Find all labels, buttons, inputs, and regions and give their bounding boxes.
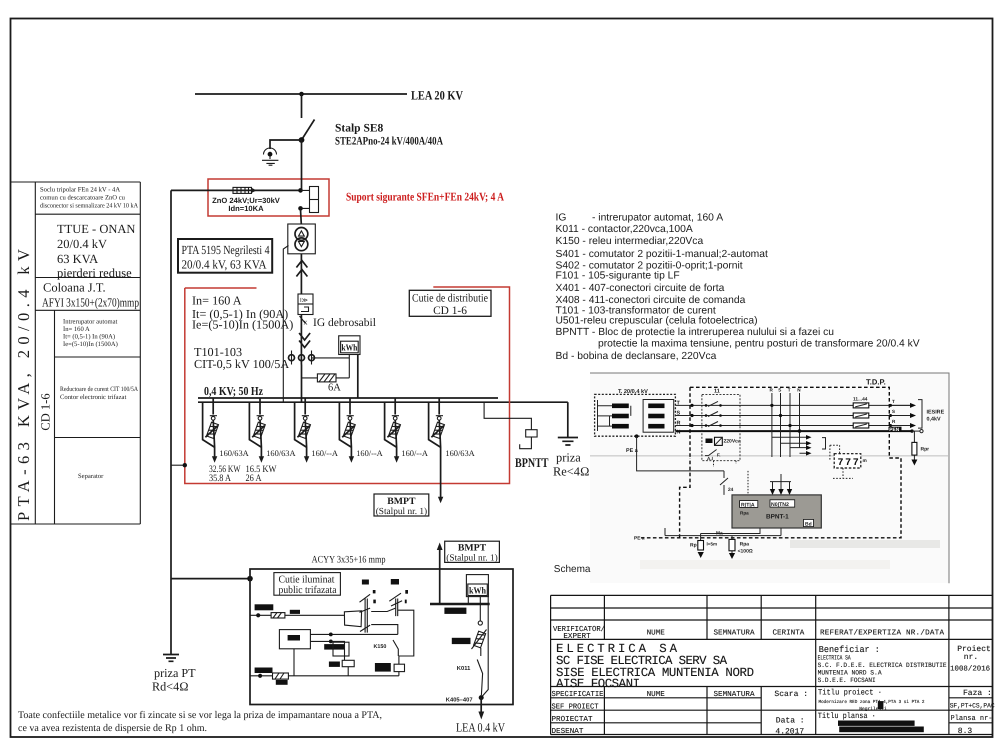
svg-text:1008/2016: 1008/2016 (950, 665, 990, 674)
svg-text:Ie=(5-10)In (1500A): Ie=(5-10)In (1500A) (63, 341, 118, 348)
voltmeter dotted link (830, 445, 853, 478)
svg-text:S401 - comutator 2 pozitii-1-m: S401 - comutator 2 pozitii-1-manual;2-au… (556, 249, 768, 260)
svg-text:Ma: Ma (716, 531, 723, 537)
redaction marks titlu (878, 701, 884, 709)
svg-text:4.2017: 4.2017 (775, 728, 804, 737)
table row: reductoare de curent (60, 386, 138, 401)
svg-text:NUME: NUME (647, 630, 666, 638)
coil 2 (342, 660, 354, 666)
legend component list (556, 213, 920, 363)
svg-text:In= 160 A: In= 160 A (192, 294, 242, 308)
svg-text:8.3: 8.3 (958, 727, 973, 736)
svg-text:BMPT: BMPT (458, 543, 487, 554)
svg-text:NUME: NUME (647, 691, 666, 699)
svg-text:Coloana J.T.: Coloana J.T. (43, 281, 106, 295)
fuse interior 2 (273, 673, 289, 679)
contact pair 2 (396, 599, 398, 617)
svg-text:comun cu descarcatoare ZnO cu: comun cu descarcatoare ZnO cu (40, 195, 126, 202)
phase lines (675, 405, 911, 425)
title block grid (551, 595, 993, 734)
svg-text:Stalp SE8: Stalp SE8 (335, 123, 384, 135)
wire earthing conductor left (170, 190, 172, 654)
svg-text:777: 777 (838, 458, 861, 469)
winding secondary (643, 400, 674, 433)
svg-text:Rd<4Ω: Rd<4Ω (152, 680, 189, 694)
svg-text:Rpa: Rpa (740, 542, 750, 548)
coil K150 (394, 664, 404, 671)
control taps verticals (772, 393, 800, 457)
svg-text:A.I: A.I (707, 456, 713, 461)
feeder 3 switch-fuse (295, 398, 338, 463)
svg-text:priza: priza (556, 451, 581, 465)
enclosure cutie iluminat public (250, 569, 513, 705)
svg-text:SEF PROIECT: SEF PROIECT (552, 702, 599, 711)
svg-text:11: 11 (714, 389, 720, 395)
svg-text:160/--A: 160/--A (356, 449, 383, 458)
svg-text:K150 - releu intermediar,220Vc: K150 - releu intermediar,220Vca (556, 236, 704, 247)
svg-text:Faza :: Faza : (963, 689, 992, 698)
svg-text:CD 1-6: CD 1-6 (39, 393, 53, 430)
withdrawable chevrons up (296, 261, 307, 277)
node interior (256, 613, 260, 617)
svg-text:disconector si semnalizare 24: disconector si semnalizare 24 kV 10 kA (40, 203, 138, 210)
phase squares above (362, 580, 369, 585)
svg-text:220Vca: 220Vca (724, 439, 741, 445)
node LEA exit (479, 695, 484, 700)
wire ZnO arrester branch (171, 189, 301, 191)
svg-text:S: S (892, 409, 895, 414)
svg-text:AFYI 3x150+(2x70)mmp: AFYI 3x150+(2x70)mmp (42, 296, 139, 310)
svg-text:K011 - contactor,220vca,100A: K011 - contactor,220vca,100A (556, 224, 693, 235)
table row: intrerupator automat (63, 319, 118, 349)
TDP dashed outline (640, 387, 901, 538)
wire transformer neutral diagonal (283, 246, 288, 403)
feeder 5 switch-fuse (385, 398, 428, 463)
svg-text:CERINTA: CERINTA (772, 629, 804, 638)
svg-text:LEA 0.4 kV: LEA 0.4 kV (456, 721, 505, 735)
wire mid branch (371, 625, 398, 635)
svg-text:20/0.4 kV, 63 KVA: 20/0.4 kV, 63 KVA (182, 257, 267, 271)
svg-text:20/0.4 kV: 20/0.4 kV (57, 237, 107, 251)
svg-text:Contor electronic trifazat: Contor electronic trifazat (60, 394, 126, 401)
redaction bars interior bottom (255, 668, 273, 674)
svg-text:ce va avea rezistenta de dispe: ce va avea rezistenta de dispersie de Rp… (18, 723, 207, 734)
svg-text:PE a: PE a (634, 536, 645, 542)
svg-text:I≫: I≫ (300, 297, 308, 304)
contactor blades (708, 401, 718, 426)
svg-text:Rpr: Rpr (921, 447, 930, 453)
wire interior bottom (250, 675, 399, 677)
svg-text:Toate confectiile metalice vor: Toate confectiile metalice vor fi zincat… (18, 710, 382, 721)
meter kWh 2 (466, 575, 488, 597)
node fuse bottom (298, 206, 303, 211)
redaction bars interior top (255, 604, 274, 610)
wire riser to BMPT arrow up (439, 549, 441, 604)
svg-text:kWh: kWh (341, 343, 357, 353)
fuse-switch on LEA feeder (474, 631, 486, 648)
svg-text:LEA 20 KV: LEA 20 KV (411, 89, 464, 103)
winding primary (598, 400, 631, 431)
svg-text:0,4kV: 0,4kV (927, 417, 941, 423)
svg-text:Data :: Data : (776, 716, 805, 725)
svg-text:160/63A: 160/63A (219, 449, 248, 458)
label box BMPT 2 (445, 541, 500, 562)
label box Cutie de distributie (409, 290, 491, 316)
svg-text:ACYY 3x35+16 mmp: ACYY 3x35+16 mmp (312, 555, 386, 566)
svg-text:SF,PT+CS,PAC: SF,PT+CS,PAC (950, 702, 995, 710)
svg-text:It= (0,5-1) In (90A): It= (0,5-1) In (90A) (63, 334, 115, 341)
ground at pole arrester (262, 160, 278, 165)
svg-text:PTA 5195 Negrilesti 4: PTA 5195 Negrilesti 4 (182, 243, 270, 257)
contactor drive box (344, 611, 361, 627)
wire pair2 to right riser (398, 610, 414, 664)
svg-text:SEMNATURA: SEMNATURA (713, 629, 754, 638)
wire to surge arrester (270, 140, 302, 149)
sense arrows into block (770, 474, 791, 490)
svg-text:BPNTT: BPNTT (515, 455, 549, 470)
contact pair 1 (365, 599, 367, 633)
svg-text:Intrerupator automat: Intrerupator automat (63, 319, 118, 326)
contactor dashed box (702, 394, 740, 460)
svg-text:kWh: kWh (469, 587, 487, 597)
svg-text:EXPERT: EXPERT (563, 633, 591, 641)
bracket iesire (918, 400, 922, 429)
svg-text:SEMNATURA: SEMNATURA (713, 690, 754, 699)
feeder 1 switch-fuse (203, 398, 249, 463)
svg-text:11...44: 11...44 (853, 397, 868, 403)
scan smudges (790, 540, 940, 548)
wire exit arrow LEA 0.4 (480, 698, 482, 713)
svg-text:T: T (788, 388, 791, 393)
svg-text:x: x (304, 318, 308, 327)
svg-text:160/--A: 160/--A (311, 449, 338, 458)
scan background tint (590, 373, 949, 583)
svg-text:m: m (863, 459, 867, 464)
svg-text:Cutie iluminat: Cutie iluminat (279, 574, 335, 585)
wire bond to cabinet (171, 464, 185, 466)
svg-text:N0|TN2: N0|TN2 (771, 502, 789, 508)
fuse interior 1 (271, 613, 285, 618)
svg-text:Titlu proiect ·: Titlu proiect · (818, 689, 882, 698)
svg-text:160/63A: 160/63A (445, 449, 474, 458)
svg-text:(Stalpul nr. 1): (Stalpul nr. 1) (376, 507, 427, 517)
svg-text:24: 24 (728, 487, 734, 493)
svg-text:160/63A: 160/63A (266, 449, 295, 458)
svg-text:REFERAT/EXPERTIZA NR./DATA: REFERAT/EXPERTIZA NR./DATA (820, 629, 944, 638)
svg-text:AISE FOCSANI: AISE FOCSANI (556, 677, 640, 691)
redaction bar (444, 608, 466, 614)
svg-text:PE a: PE a (626, 448, 639, 454)
blade Amax (705, 450, 717, 456)
svg-text:Rp: Rp (690, 543, 697, 549)
left specification table grid (11, 182, 141, 524)
svg-text:S.C. F.D.E.E. ELECTRICA DISTRI: S.C. F.D.E.E. ELECTRICA DISTRIBUTIE (818, 662, 947, 669)
contact K150 (393, 640, 398, 656)
svg-text:Plansa nr-: Plansa nr- (951, 714, 993, 723)
feeder 2 switch-fuse (249, 398, 295, 463)
fuses 11-44 (853, 403, 869, 428)
current transformers T101-103 (292, 351, 312, 365)
wire meter to bus (357, 355, 359, 399)
withdrawable chevrons down (299, 333, 310, 348)
aux contact dashes 2 (405, 590, 408, 594)
red highlight box fuse support (208, 179, 329, 216)
wire LEA 20 KV overhead line (195, 93, 407, 95)
svg-text:In= 160 A: In= 160 A (63, 326, 90, 333)
svg-text:CD 1-6: CD 1-6 (433, 305, 467, 317)
svg-text:IESIRE: IESIRE (927, 410, 945, 416)
svg-text:Schema: Schema (554, 564, 591, 575)
coil Bd (715, 437, 723, 445)
ground priza Re (558, 438, 578, 446)
svg-text:DESENAT: DESENAT (552, 727, 584, 736)
svg-text:PTA-63 KVA, 20/0.4 kV: PTA-63 KVA, 20/0.4 kV (14, 249, 33, 521)
svg-text:Idn=10KA: Idn=10KA (228, 204, 264, 213)
table row: TTUE ONAN (57, 222, 135, 280)
breaker open blade mark (300, 316, 306, 324)
svg-text:T.D.P.: T.D.P. (866, 378, 886, 387)
table row: Coloana J.T. (42, 281, 139, 310)
svg-text:K150: K150 (374, 644, 387, 650)
svg-text:K405–407: K405–407 (446, 697, 473, 704)
svg-text:Rpa: Rpa (740, 511, 749, 516)
node junction on LEA line (299, 92, 304, 97)
svg-text:protectie la maxima tensiune,: protectie la maxima tensiune, pentru pos… (598, 339, 920, 350)
wire main to bus (301, 365, 303, 403)
transformer dotted box (595, 394, 676, 436)
scan frame (590, 373, 949, 583)
svg-text:63 KVA: 63 KVA (57, 252, 98, 266)
wire interior phase in (250, 614, 344, 616)
wire HV riser (301, 140, 303, 189)
PE riser (637, 436, 728, 495)
fuse SFEn 24kV (310, 187, 319, 213)
resistor Rpr (913, 431, 915, 459)
switch blade K011 (477, 648, 482, 695)
svg-text:26 A: 26 A (246, 473, 262, 484)
wire meter drop right (482, 597, 489, 697)
arrester cap symbol (264, 148, 277, 155)
svg-text:(Stalpul nr. 1): (Stalpul nr. 1) (446, 553, 497, 563)
svg-text:MUNTENIA NORD S.A: MUNTENIA NORD S.A (818, 669, 882, 676)
label PEN (889, 427, 902, 432)
svg-text:PROIECTAT: PROIECTAT (552, 715, 593, 724)
svg-text:R|T|A: R|T|A (741, 502, 755, 508)
svg-text:T: T (892, 399, 895, 404)
resistor Rpa (729, 539, 735, 550)
busbar 0.4kV line 2 (198, 401, 568, 403)
feeder 4 switch-fuse (339, 398, 382, 463)
node bond cutie (247, 576, 253, 582)
svg-text:F101 - 105-sigurante tip LF: F101 - 105-sigurante tip LF (556, 271, 680, 282)
node bond cabinet (183, 463, 187, 467)
svg-text:IG: IG (556, 213, 567, 224)
svg-text:K011: K011 (457, 665, 471, 672)
svg-text:S.D.E.E. FOCSANI: S.D.E.E. FOCSANI (818, 677, 876, 684)
wire to fuse 6A (302, 377, 350, 379)
relay box interior (279, 630, 310, 649)
label box cutie iluminat (274, 573, 341, 596)
svg-text:S: S (778, 388, 781, 393)
svg-text:<100Ω: <100Ω (738, 549, 753, 555)
svg-text:35.8 A: 35.8 A (209, 473, 231, 484)
svg-text:STE2APno-24 kV/400A/40A: STE2APno-24 kV/400A/40A (335, 136, 444, 148)
wire drop from LEA (301, 94, 303, 118)
aux contact dashes 1 (373, 590, 376, 593)
transformer TTUE box (288, 224, 316, 254)
node fuse top (298, 188, 303, 193)
svg-text:public trifazata: public trifazata (279, 585, 337, 596)
svg-text:T. 20/0,4 kV: T. 20/0,4 kV (618, 388, 648, 395)
feeder 6 switch-fuse (429, 398, 475, 503)
disconnector blade on pole (302, 120, 315, 141)
svg-text:Cutie de distributie: Cutie de distributie (412, 293, 488, 305)
relay BPNTT body (526, 430, 537, 437)
svg-text:BPNT-1: BPNT-1 (766, 514, 789, 521)
exit arrows 0.4kV (891, 405, 911, 425)
N end arrow (910, 429, 913, 432)
block BPNT-1 (732, 495, 821, 528)
svg-text:Re<4Ω: Re<4Ω (553, 465, 589, 479)
wire bus end to earth electrode (567, 402, 569, 437)
busbar inside box (430, 603, 490, 606)
aux rect a (333, 642, 349, 656)
svg-text:Suport sigurante SFEn+FEn 24kV: Suport sigurante SFEn+FEn 24kV; 4 A (346, 190, 504, 204)
busbar 0.4kV line 1 (198, 397, 498, 399)
label box PTA 5195 (178, 239, 272, 273)
ground priza PT (163, 655, 179, 662)
svg-text:SPECIFICATIE: SPECIFICATIE (552, 690, 604, 699)
sample arrows to voltmeter (772, 437, 806, 453)
block output wires (665, 528, 781, 541)
svg-text:CIT-0,5 kV 100/5A: CIT-0,5 kV 100/5A (194, 357, 289, 371)
wire CT secondary to meter (312, 355, 350, 378)
svg-text:Separator: Separator (78, 473, 104, 480)
resistor Rp (698, 541, 704, 551)
display 777 (834, 454, 861, 468)
wire IG to CTs (300, 315, 302, 365)
wire bus to BPNTT (484, 402, 531, 449)
meter kWh box (339, 336, 360, 355)
svg-text:F.: F. (717, 453, 721, 458)
wire LV from transformer (300, 254, 302, 294)
svg-text:Bd: Bd (805, 521, 812, 527)
svg-text:nr.: nr. (964, 653, 978, 662)
svg-text:Modernizare RED zona PTA 4,PTA: Modernizare RED zona PTA 4,PTA 3 si PTA … (819, 699, 925, 705)
svg-text:BMPT: BMPT (387, 496, 416, 507)
fuse F 6A (317, 374, 336, 382)
label box BMPT stalp1 (374, 494, 429, 516)
svg-text:TTUE - ONAN: TTUE - ONAN (57, 222, 135, 236)
svg-text:Reductoare de curent CIT 100/5: Reductoare de curent CIT 100/5A (60, 386, 138, 393)
svg-text:Bd - bobina de declansare, 220: Bd - bobina de declansare, 220Vca (556, 351, 717, 362)
svg-text:priza PT: priza PT (154, 666, 196, 680)
table row: soclu tripolar note (40, 187, 138, 210)
svg-text:X408 - 411-conectori circuite: X408 - 411-conectori circuite de comanda (556, 295, 746, 306)
arrester ZnO body (233, 187, 252, 193)
redaction bar mid (324, 644, 344, 650)
wire bond to cutie box (171, 578, 250, 580)
transformer T1 windings (295, 228, 308, 241)
svg-text:Ie=(5-10)In (1500A): Ie=(5-10)In (1500A) (192, 318, 293, 332)
svg-text:U501-releu crepuscular (celula: U501-releu crepuscular (celula fotoelect… (556, 316, 758, 327)
svg-text:BPNTT - Bloc de protectie la i: BPNTT - Bloc de protectie la intrerupere… (556, 327, 835, 338)
svg-text:6A: 6A (328, 383, 341, 394)
svg-text:160/--A: 160/--A (401, 449, 428, 458)
svg-text:pierderi reduse: pierderi reduse (57, 266, 132, 280)
svg-text:0,4 KV; 50 Hz: 0,4 KV; 50 Hz (204, 384, 263, 398)
svg-text:l=5m: l=5m (707, 542, 718, 547)
breaker IG box (298, 294, 313, 315)
svg-text:IG debrosabil: IG debrosabil (313, 317, 376, 329)
svg-text:Titlu plansa ·: Titlu plansa · (818, 712, 876, 721)
svg-text:Soclu tripolar FEn 24 kV - 4A: Soclu tripolar FEn 24 kV - 4A (40, 187, 120, 194)
line N PEN (675, 430, 912, 432)
redaction bar (452, 638, 471, 644)
node blade pivot (299, 137, 305, 143)
red box distribution CD 1-6 (185, 287, 510, 484)
svg-text:Scara :: Scara : (774, 690, 808, 699)
wire pair1 to pair2 (371, 608, 395, 611)
wire meter drop left (479, 597, 481, 621)
svg-text:ELECTRICA SA: ELECTRICA SA (818, 654, 851, 661)
svg-text:PEN: PEN (889, 427, 899, 433)
svg-text:- intrerupator automat, 160 A: - intrerupator automat, 160 A (592, 213, 723, 224)
svg-text:X401 - 407-conectori circuite: X401 - 407-conectori circuite de forta (556, 283, 725, 294)
wire relay to K150 (310, 634, 397, 660)
links to BPNT (714, 461, 737, 467)
